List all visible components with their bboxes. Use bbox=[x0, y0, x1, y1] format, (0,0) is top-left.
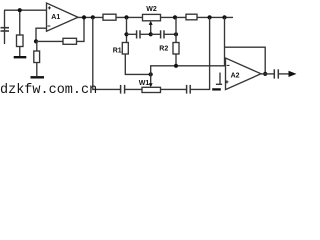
wire rail to R2 bbox=[175, 17, 177, 42]
svg-text:W1: W1 bbox=[139, 80, 150, 87]
op-amp A1 bbox=[47, 3, 79, 31]
node rail 4 bbox=[173, 15, 177, 19]
wire cap line seg3 bbox=[151, 33, 161, 35]
svg-text:A1: A1 bbox=[51, 14, 60, 21]
wire cap line seg2 bbox=[140, 33, 150, 35]
resistor R4 bbox=[186, 14, 197, 20]
wire C5 up to rail bbox=[191, 17, 210, 89]
node rail 3 bbox=[124, 15, 128, 19]
ground G3 bar 1 bbox=[216, 83, 222, 85]
potentiometer W1 wiper arrow bbox=[150, 74, 152, 83]
node cap line 2 bbox=[149, 32, 153, 36]
capacitor C6 bbox=[273, 69, 275, 78]
wire Rf to rail bbox=[77, 17, 85, 41]
resistor Rf bbox=[63, 38, 77, 44]
wire cap line seg4 bbox=[164, 33, 176, 35]
wire A2 feedback top bbox=[225, 47, 266, 74]
wire A2 plus ground lead bbox=[219, 73, 221, 85]
svg-text:R2: R2 bbox=[159, 45, 168, 52]
ground G2 bbox=[31, 76, 45, 78]
node cap line 1 bbox=[124, 32, 128, 36]
node rail 2 bbox=[91, 15, 95, 19]
wire Rg bottom lead bbox=[36, 63, 38, 77]
svg-text:dzkfw.com.cn: dzkfw.com.cn bbox=[0, 83, 97, 96]
capacitor C3 bbox=[160, 30, 162, 38]
node input bbox=[18, 8, 22, 12]
resistor R2 bbox=[173, 43, 179, 55]
wire rail to A2 minus bbox=[224, 17, 226, 65]
svg-text:W2: W2 bbox=[146, 6, 157, 13]
node cap line 3 bbox=[174, 32, 178, 36]
node rail 6 bbox=[222, 15, 226, 19]
potentiometer W2 wiper bbox=[150, 24, 152, 34]
wire R-in bottom lead bbox=[19, 47, 21, 57]
wire A1 minus input bbox=[36, 28, 47, 41]
potentiometer W2 body bbox=[143, 14, 161, 20]
node A2 output bbox=[263, 72, 267, 76]
capacitor C5 bbox=[186, 85, 188, 94]
wire W1 right to C5 bbox=[161, 88, 187, 90]
wire wiper up to minus line bbox=[151, 66, 226, 75]
wire input top bbox=[4, 9, 47, 11]
wire Rg top lead bbox=[36, 41, 38, 51]
wire output rail bbox=[77, 16, 233, 18]
output arrow bbox=[289, 71, 297, 77]
capacitor C1 bbox=[1, 28, 10, 31]
label minus A2 bbox=[227, 64, 230, 66]
wire R2 bottom bbox=[175, 54, 177, 66]
label plus A2 bbox=[225, 80, 228, 83]
svg-text:A2: A2 bbox=[231, 73, 240, 80]
wire A2 output bbox=[261, 73, 274, 75]
wire to output arrow bbox=[279, 73, 289, 75]
potentiometer W1 body bbox=[142, 87, 161, 92]
wire C1 lead bbox=[4, 10, 6, 44]
node A1 inverting bbox=[34, 39, 38, 43]
resistor R-in bbox=[17, 35, 24, 47]
wire rail to cap line left bbox=[126, 17, 128, 42]
resistor R1 bbox=[122, 43, 128, 55]
wire C4 to W1 bbox=[125, 88, 142, 90]
node W1 wiper bbox=[149, 72, 153, 76]
wire cap line seg1 bbox=[127, 33, 137, 35]
resistor Rg bbox=[34, 51, 40, 63]
svg-text:R1: R1 bbox=[113, 48, 122, 55]
label plus A1 bbox=[48, 6, 51, 9]
wire bottom left vertical bbox=[93, 17, 120, 89]
wire R-in top lead bbox=[19, 10, 21, 35]
node rail 1 bbox=[82, 15, 86, 19]
wire node to Rf bbox=[36, 40, 63, 42]
label minus A1 bbox=[48, 25, 51, 27]
ground G3 bar 2 bbox=[212, 88, 221, 90]
op-amp A2 bbox=[226, 58, 262, 90]
node rail 5 bbox=[208, 15, 212, 19]
capacitor C2 bbox=[136, 30, 138, 38]
ground G1 bbox=[14, 56, 27, 58]
wire R1 bottom to W1 wiper bbox=[125, 54, 150, 74]
capacitor C4 bbox=[120, 85, 122, 94]
resistor R3 bbox=[103, 14, 116, 20]
node minus line bbox=[174, 64, 178, 68]
